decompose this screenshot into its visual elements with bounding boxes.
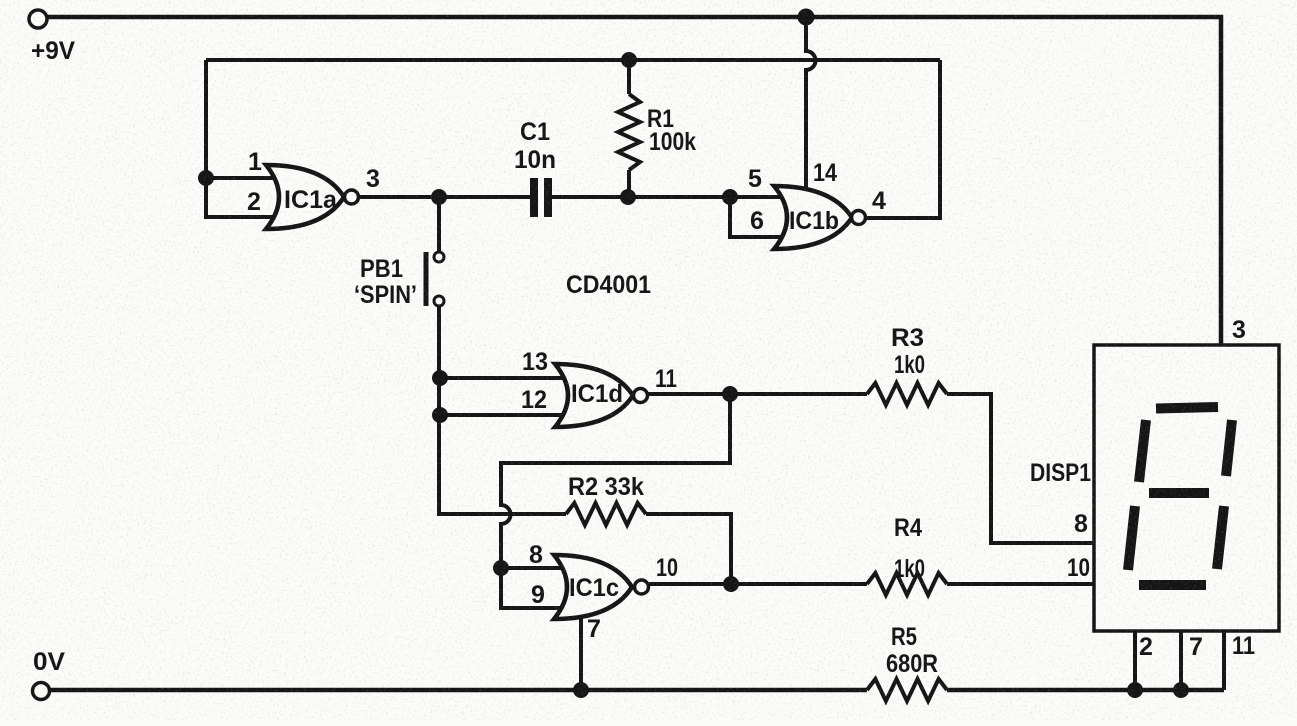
junction +9V rail / pin14 (798, 9, 815, 26)
+9V terminal (29, 10, 47, 28)
junction IC1d pin13 (432, 370, 448, 386)
wire PB1 to IC1d input node (439, 307, 566, 514)
junction IC1d output / feedback (722, 386, 738, 402)
junction feedback rail / R1 top (621, 52, 637, 68)
resistor R1 zigzag (618, 94, 640, 170)
wire R2 to IC1c output node (646, 514, 731, 584)
wire IC1c output (pin 10) to R4 (649, 582, 867, 586)
display segment c (lower-right) (1217, 506, 1224, 569)
wire IC1b pin 6 drop (730, 197, 788, 237)
wire IC1b output pin 4 to feedback rail (866, 60, 940, 218)
wire display pin 2 (1133, 631, 1137, 690)
junction IC1c pin8 node (493, 560, 509, 576)
junction IC1c output / R2 (723, 576, 739, 592)
junction node3 / PB1 (431, 189, 447, 205)
wire IC1a output node (pin 3) to C1 (359, 195, 531, 199)
wire 0V rail bottom (left of R5) (49, 688, 867, 693)
wire C1 to R1/IC1b node (551, 195, 786, 199)
wire display pin 7 (1179, 631, 1183, 690)
NOR gate IC1d body (555, 364, 633, 427)
wire IC1a input node vertical (206, 60, 280, 217)
wire IC1b pin 14 to +9V rail (hop over feedback rail) (806, 17, 816, 195)
wire IC1a pin 1 (206, 176, 280, 180)
resistor R5 zigzag (867, 679, 947, 701)
wire IC1c pin 8 (501, 566, 568, 570)
pushbutton PB1 bottom contact (434, 296, 444, 306)
capacitor C1 plates (530, 178, 552, 217)
junction R1 bottom / node (620, 189, 636, 205)
pushbutton PB1 actuator bar (424, 252, 429, 306)
resistor R3 zigzag (867, 383, 947, 405)
junction IC1a inputs (198, 170, 214, 186)
wire IC1d pin 13 (440, 376, 570, 380)
display segment b (upper-right) (1226, 420, 1232, 476)
wire R1 top lead (627, 60, 631, 94)
wire node 3 down to PB1 (437, 197, 441, 251)
wire 0V rail bottom (right of R5) (947, 688, 1224, 693)
wire IC1c pin 9 (501, 568, 568, 608)
junction display pin7 / 0V rail (1173, 682, 1189, 698)
wire IC1c pin 7 to 0V rail (579, 610, 583, 690)
display segment d (bottom) (1139, 580, 1206, 590)
NOR gate IC1a body (266, 165, 344, 229)
junction IC1c pin7 / 0V rail (573, 682, 589, 698)
junction IC1d pin12 (432, 407, 448, 423)
display segment f (upper-left) (1139, 420, 1146, 482)
paper speckle noise (0, 0, 1, 1)
resistor R2 zigzag (566, 503, 646, 525)
display segment a (top) (1156, 407, 1218, 409)
display segment e (lower-left) (1128, 506, 1135, 570)
wire display pin 11 (1222, 631, 1226, 690)
wire IC1d pin 12 (440, 413, 570, 417)
pushbutton PB1 top contact (434, 252, 444, 262)
wire R1 bottom lead (627, 170, 631, 197)
wire IC1d output to R3 (648, 392, 867, 396)
wire feedback rail (IC1b out loop, y=60) (206, 58, 940, 62)
NOR gate IC1b body (774, 186, 852, 249)
NOR gate IC1c body (554, 555, 632, 619)
0V terminal (33, 683, 50, 700)
wire +9V rail top (47, 17, 1221, 345)
display segment g (middle) (1149, 488, 1209, 498)
wire R3 to display pin 8 (947, 394, 1094, 543)
display DISP1 outline (1094, 345, 1279, 631)
wire R4 to display pin 10 (947, 582, 1094, 586)
resistor R4 zigzag (867, 573, 947, 595)
junction display pin2 / 0V rail (1127, 682, 1143, 698)
wire IC1d out feedback down to IC1c input (hop over R2 wire) (501, 394, 730, 568)
junction IC1b inputs (722, 189, 738, 205)
